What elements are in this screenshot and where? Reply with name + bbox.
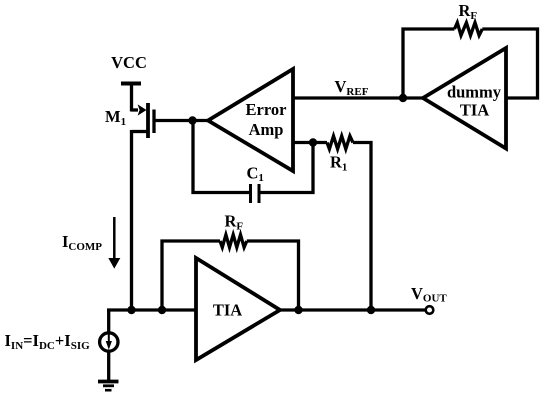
resistor RF (TIA feedback)	[220, 235, 247, 248]
amplifier dummy TIA	[423, 48, 506, 149]
op-amp U1 Error Amp	[208, 69, 293, 171]
resistor R1	[327, 136, 353, 149]
wire M1 gate to Error Amp output	[156, 119, 210, 122]
svg-text:TIA: TIA	[460, 101, 489, 120]
power VCC symbol	[121, 84, 141, 112]
amplifier TIA	[196, 258, 280, 360]
wire TIA feedback top+right	[247, 241, 299, 310]
wire input bus	[107, 308, 196, 311]
svg-text:Error: Error	[246, 100, 287, 119]
wire C1 right branch to R1 node	[259, 143, 313, 193]
wire Error Amp lower input to R1	[293, 141, 327, 144]
svg-text:VCC: VCC	[111, 53, 147, 72]
node TIA output junction	[294, 306, 302, 314]
wire M1 drain to input bus	[130, 130, 133, 310]
node input bus / TIA feedback junction	[158, 306, 166, 314]
wire C1 left branch from gate node	[193, 121, 251, 193]
wire dummy TIA feedback loop top+right to output	[482, 29, 537, 98]
wire TIA feedback left+top	[162, 241, 220, 310]
terminal VOUT open circle	[426, 306, 434, 314]
wire R1 to VOUT vertical	[353, 143, 371, 311]
node R1/C1 junction	[309, 138, 317, 146]
capacitor C1	[251, 184, 260, 203]
current arrow ICOMP	[108, 217, 120, 269]
wire VOUT line	[280, 308, 426, 311]
wire net VREF: Error Amp input to dummy TIA	[293, 96, 423, 99]
node input bus / M1 drain junction	[127, 306, 135, 314]
node R1/VOUT junction	[367, 306, 375, 314]
svg-text:TIA: TIA	[213, 301, 242, 320]
wire dummy TIA feedback loop left+top	[403, 29, 455, 98]
transistor M1 source arrow	[138, 104, 147, 115]
transistor M1	[132, 103, 155, 138]
resistor RF (dummy TIA feedback)	[455, 23, 483, 36]
node gate junction	[188, 116, 196, 124]
node VREF junction	[399, 94, 407, 102]
current source I_IN	[100, 310, 118, 380]
ground	[98, 382, 119, 391]
svg-text:dummy: dummy	[447, 83, 502, 102]
svg-text:Amp: Amp	[249, 120, 284, 139]
